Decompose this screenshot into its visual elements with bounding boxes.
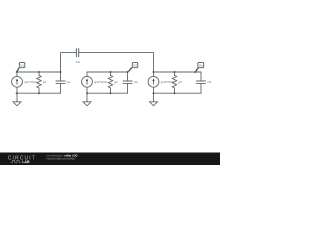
svg-text:gm3*V(V2): gm3*V(V2) [161,80,174,84]
svg-text:gm2*V(V1): gm2*V(V1) [94,80,107,84]
svg-text:gm1*V(Vi): gm1*V(Vi) [24,80,36,84]
svg-text:V1: V1 [20,63,24,67]
svg-text:V2: V2 [133,63,137,67]
svg-text:g1: g1 [43,80,47,84]
svg-text:g2: g2 [114,80,118,84]
svg-text:Cm: Cm [76,60,81,64]
svg-text:C2: C2 [134,80,138,84]
svg-text:g3: g3 [178,80,182,84]
svg-text:C3: C3 [207,80,211,84]
svg-text:Vo: Vo [199,63,203,67]
svg-text:LAB: LAB [22,160,30,164]
svg-text:C1: C1 [66,80,70,84]
svg-text:http://circuitlab.com/c62kjk2: http://circuitlab.com/c62kjk2 [47,156,77,160]
